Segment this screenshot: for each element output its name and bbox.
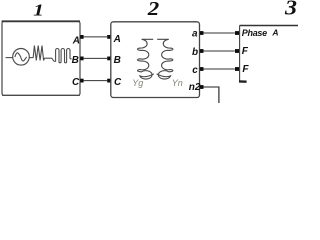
svg-text:F: F bbox=[242, 46, 249, 57]
svg-text:B: B bbox=[72, 55, 79, 66]
wire b (T1 to U3) bbox=[204, 50, 235, 52]
svg-text:A: A bbox=[271, 27, 278, 37]
svg-text:A: A bbox=[72, 35, 80, 46]
svg-text:a: a bbox=[192, 28, 198, 39]
svg-text:b: b bbox=[192, 47, 198, 58]
port c stub of T1 bbox=[200, 67, 204, 71]
svg-text:2: 2 bbox=[147, 0, 160, 20]
wire B (U1 to T1) bbox=[84, 57, 108, 59]
primary winding coil (left) bbox=[138, 39, 154, 79]
svg-text:Phase: Phase bbox=[242, 28, 267, 38]
inductor L (coil) bbox=[52, 49, 70, 63]
svg-text:3: 3 bbox=[284, 0, 297, 20]
input stub b of U3 bbox=[235, 49, 239, 53]
AC source V1 circle bbox=[13, 49, 30, 66]
port a stub of T1 bbox=[200, 31, 204, 35]
port B stub of U1 bbox=[80, 57, 83, 61]
svg-text:C: C bbox=[72, 77, 80, 88]
block T1 transformer outline bbox=[111, 22, 200, 98]
svg-text:c: c bbox=[192, 65, 198, 76]
wire from inductor to port B bbox=[70, 58, 72, 60]
AC source sine wave bbox=[15, 53, 27, 61]
block U3 measurement outline (clipped at image edge) bbox=[239, 26, 298, 82]
input stub C of T1 bbox=[107, 79, 110, 83]
wire a (T1 to U3) bbox=[204, 32, 235, 34]
wire lead into AC source bbox=[6, 57, 13, 59]
port n2 stub of T1 bbox=[200, 85, 204, 89]
wire n2 horizontal segment bbox=[204, 86, 220, 88]
wire from resistor to inductor bbox=[45, 57, 52, 59]
block U1 three-phase source outline bbox=[2, 21, 80, 95]
port C stub of U1 bbox=[80, 79, 83, 83]
svg-text:A: A bbox=[113, 34, 121, 45]
input stub c of U3 bbox=[235, 67, 239, 71]
svg-text:Yg: Yg bbox=[132, 78, 143, 88]
svg-text:n2: n2 bbox=[189, 82, 201, 93]
input stub A of T1 bbox=[107, 35, 110, 39]
secondary winding coil (right) bbox=[157, 39, 173, 79]
svg-text:Yn: Yn bbox=[172, 78, 183, 88]
resistor R (zigzag) bbox=[33, 46, 44, 61]
svg-text:1: 1 bbox=[33, 0, 44, 19]
svg-text:F: F bbox=[242, 64, 249, 75]
port A stub of U1 bbox=[80, 35, 83, 39]
wire c (T1 to U3) bbox=[204, 68, 235, 70]
port b stub of T1 bbox=[200, 49, 204, 53]
wire from source to resistor bbox=[29, 57, 33, 59]
input stub B of T1 bbox=[107, 57, 110, 61]
wire n2 vertical segment bbox=[218, 87, 220, 104]
svg-text:B: B bbox=[114, 55, 121, 66]
wire C (U1 to T1) bbox=[84, 80, 108, 82]
svg-text:C: C bbox=[114, 77, 122, 88]
wire A (U1 to T1) bbox=[84, 36, 108, 38]
input stub a of U3 bbox=[235, 31, 239, 35]
